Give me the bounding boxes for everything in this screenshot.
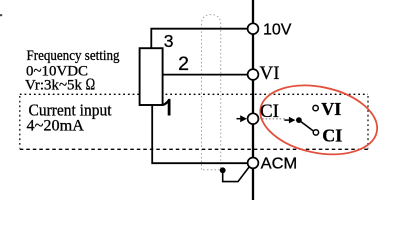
svg-text:3: 3 <box>164 31 174 51</box>
terminal ACM <box>248 158 259 169</box>
svg-text:Vr:3k~5k: Vr:3k~5k <box>25 78 82 94</box>
arrow into CI terminal <box>237 118 241 120</box>
pot pin label 1 <box>163 99 170 116</box>
dashed box current-input region top edge <box>20 93 368 95</box>
svg-text:ACM: ACM <box>261 155 298 172</box>
wire 1 (pot bottom to ACM) <box>152 105 247 164</box>
selector arrow <box>284 119 289 121</box>
svg-text:4~20mA: 4~20mA <box>27 118 85 135</box>
selector pole dot <box>296 117 302 123</box>
shielded-cable dotted pill <box>202 15 221 170</box>
shield drain wire to ACM <box>223 167 250 182</box>
terminal CI <box>248 113 259 124</box>
svg-text:2: 2 <box>178 53 189 75</box>
potentiometer body <box>140 48 163 105</box>
wire 3 (pot top to 10V) <box>151 29 247 49</box>
terminal VI <box>248 69 259 80</box>
gray dotted link CI to selector <box>259 118 286 120</box>
svg-text:CI: CI <box>322 125 342 145</box>
dashed box bottom edge <box>20 148 368 150</box>
red highlight ellipse <box>254 76 383 164</box>
dashed box right edge <box>367 96 369 149</box>
svg-text:VI: VI <box>321 99 341 119</box>
selector lever to CI <box>299 120 314 132</box>
svg-text:CI: CI <box>260 101 279 122</box>
wire 2 (pot wiper to VI) <box>163 74 248 76</box>
terminal 10V <box>248 23 259 34</box>
terminal strip vertical line <box>252 0 254 200</box>
svg-text:VI: VI <box>260 63 280 84</box>
option circle VI <box>313 105 318 110</box>
scan speck top-left <box>0 14 2 16</box>
shield drain dot <box>220 167 226 173</box>
dashed box left edge <box>19 96 21 149</box>
svg-text:Frequency setting: Frequency setting <box>27 48 120 64</box>
svg-text:Ω: Ω <box>86 76 96 94</box>
svg-text:10V: 10V <box>263 22 292 39</box>
option circle CI <box>313 130 318 135</box>
